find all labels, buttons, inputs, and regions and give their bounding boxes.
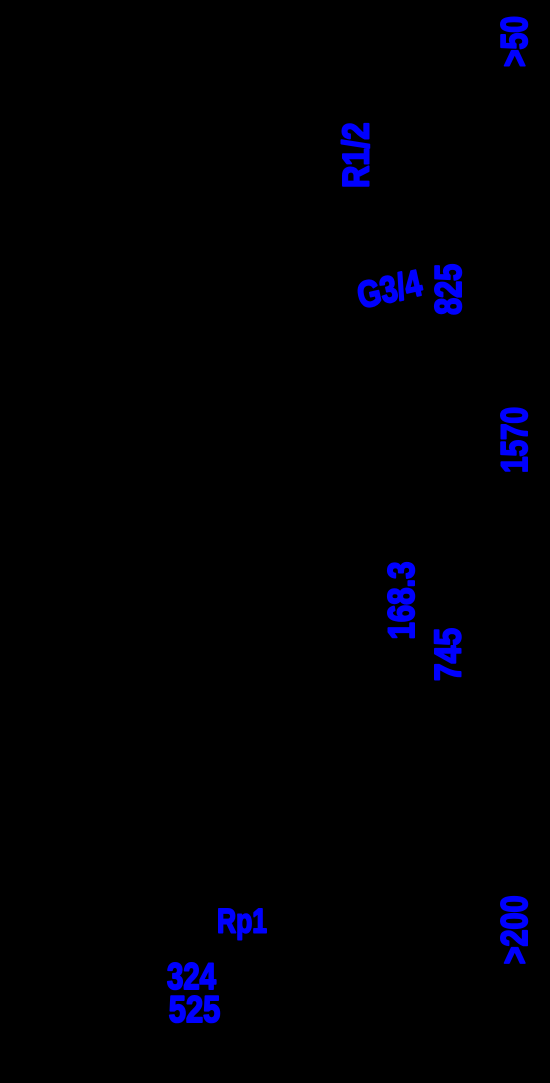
svg-text:1570: 1570 (494, 407, 535, 473)
svg-text:Rp1: Rp1 (217, 903, 267, 941)
svg-text:745: 745 (427, 628, 468, 681)
svg-text:>200: >200 (494, 895, 535, 964)
svg-text:168.3: 168.3 (381, 562, 422, 640)
svg-text:825: 825 (428, 264, 469, 315)
svg-text:>50: >50 (494, 16, 535, 67)
svg-text:R1/2: R1/2 (336, 123, 377, 189)
svg-text:525: 525 (169, 989, 221, 1030)
